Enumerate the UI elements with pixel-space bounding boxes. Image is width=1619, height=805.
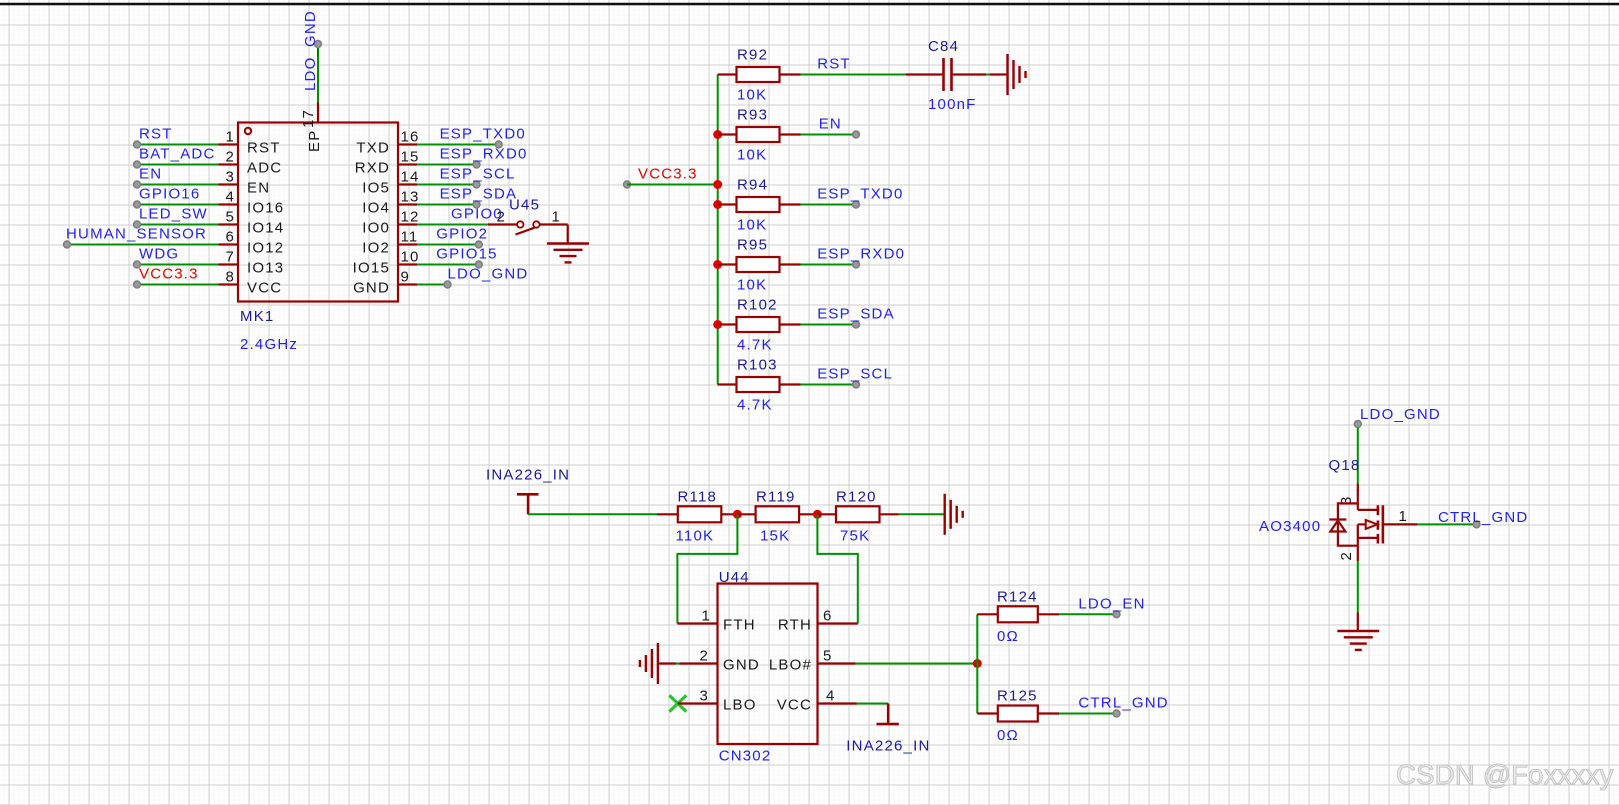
MK1 pin 10 stub [398, 263, 417, 265]
MK1 pin 4 name IO16 [247, 200, 284, 217]
MK1 pin 14 name IO5 [362, 180, 390, 197]
junction bus-R94 [713, 200, 722, 209]
svg-text:IO2: IO2 [362, 240, 390, 257]
MK1 pin 7 number [225, 249, 235, 266]
svg-text:AO3400: AO3400 [1259, 518, 1321, 535]
svg-text:LDO_GND: LDO_GND [302, 10, 319, 91]
sheet top border [0, 3, 1619, 5]
net label ESP_TXD0 (R94 row) [817, 186, 903, 203]
resistor R94 right lead [780, 203, 801, 205]
resistor R118 value [676, 528, 715, 545]
svg-text:Q18: Q18 [1329, 457, 1361, 474]
wire R125 to CTRL_GND [1059, 713, 1116, 715]
node EN endpoint [134, 181, 141, 188]
MK1 pin 12 stub [398, 223, 417, 225]
resistor R94 left lead [718, 203, 737, 205]
svg-text:2.4GHz: 2.4GHz [240, 336, 298, 353]
svg-text:VCC3.3: VCC3.3 [638, 166, 698, 183]
U44 pin 2 stub [680, 662, 718, 664]
Q18 body arrow head [1366, 520, 1378, 529]
resistor R103 left lead [718, 383, 737, 385]
net label LDO_GND [448, 266, 529, 283]
svg-text:R103: R103 [737, 357, 778, 374]
op-amp U44 body (CN302) [718, 584, 818, 745]
svg-text:1: 1 [225, 129, 235, 146]
svg-text:2: 2 [699, 648, 709, 665]
resistor R92 reference [737, 47, 768, 64]
wire net GPIO16 to MK1 pin 4 [137, 204, 219, 206]
svg-text:VCC: VCC [777, 697, 812, 714]
net label ESP_SDA [440, 186, 518, 203]
net label LDO_GND (Q18) [1360, 406, 1441, 423]
ground (R120) [945, 494, 963, 535]
resistor R102 reference [737, 297, 778, 314]
node ESP_TXD0 endpoint [853, 201, 860, 208]
svg-text:GPIO0: GPIO0 [451, 206, 503, 223]
watermark CSDN @Foxxxxy [1396, 759, 1614, 790]
resistor R118 reference [678, 488, 718, 505]
node GPIO2 endpoint [475, 241, 482, 248]
U44 pin 4 number [826, 688, 836, 705]
wire net RST to MK1 pin 1 [137, 144, 219, 146]
svg-text:10K: 10K [737, 217, 767, 234]
resistor R124 reference [997, 588, 1038, 605]
svg-text:IO12: IO12 [247, 240, 284, 257]
resistor R93 value [737, 147, 767, 164]
resistor R103 reference [737, 357, 778, 374]
wire net VCC3.3 to MK1 pin 8 [137, 284, 219, 286]
MK1 pin 13 name IO4 [362, 200, 390, 217]
U44 reference label [719, 569, 750, 586]
svg-text:110K: 110K [676, 528, 715, 545]
svg-text:5: 5 [225, 209, 235, 226]
net label WDG [139, 246, 179, 263]
resistor R92 value [737, 87, 767, 104]
U45 reference label [509, 197, 540, 214]
net label LDO_GND (vertical) [302, 10, 319, 91]
MK1 pin 17 (EP) stub [317, 103, 319, 123]
MK1 pin 6 stub [219, 243, 239, 245]
MK1 pin 7 stub [219, 263, 239, 265]
junction bus-VCC3.3 [713, 180, 722, 189]
U44 pin 2 name GND [723, 657, 760, 674]
svg-text:12: 12 [401, 209, 420, 226]
U44 pin 6 stub [818, 622, 858, 624]
svg-text:R92: R92 [737, 47, 768, 64]
svg-text:MK1: MK1 [240, 308, 274, 325]
wire MK1 pin 13 to ESP_SDA [417, 204, 476, 206]
resistor R94 value [737, 217, 767, 234]
svg-text:LDO_GND: LDO_GND [1360, 406, 1441, 423]
Q18 body diode cathode bar [1329, 518, 1346, 520]
svg-text:6: 6 [823, 608, 833, 625]
resistor R120 value [840, 528, 870, 545]
U45 lever [516, 228, 535, 235]
resistor R120 body [836, 506, 880, 522]
MK1 pin 5 name IO14 [247, 220, 284, 237]
svg-text:14: 14 [401, 169, 420, 186]
svg-text:R118: R118 [678, 488, 718, 505]
Q18 gate pin (1) [1384, 523, 1417, 525]
wire C84 to ground [986, 74, 990, 76]
MK1 pin 13 stub [398, 203, 417, 205]
resistor R120 left lead [817, 513, 836, 515]
svg-text:CSDN @Foxxxxy: CSDN @Foxxxxy [1396, 759, 1614, 790]
wire R119-junction to U44 pin 6 [817, 514, 857, 623]
svg-text:10K: 10K [737, 277, 767, 294]
svg-text:15: 15 [401, 149, 420, 166]
MK1 pin 15 stub [398, 163, 417, 165]
svg-text:ESP_TXD0: ESP_TXD0 [440, 126, 526, 143]
svg-text:VCC3.3: VCC3.3 [139, 266, 199, 283]
net label ESP_TXD0 [440, 126, 526, 143]
svg-text:R119: R119 [756, 488, 796, 505]
capacitor C84 value [928, 96, 977, 113]
U45 contact circle left [517, 221, 523, 227]
svg-text:CTRL_GND: CTRL_GND [1438, 509, 1528, 526]
svg-text:ESP_TXD0: ESP_TXD0 [817, 186, 903, 203]
Q18 body arrow line [1358, 523, 1365, 525]
Q18 source vertical [1357, 524, 1359, 545]
resistor R92 left lead [718, 73, 737, 75]
resistor R92 right lead [780, 73, 801, 75]
MK1 pin 8 name VCC [247, 280, 282, 297]
svg-text:8: 8 [225, 269, 235, 286]
resistor R95 value [737, 277, 767, 294]
U44 pin 1 stub [677, 622, 717, 624]
wire LDO_GND to Q18 drain [1357, 428, 1359, 484]
svg-text:10: 10 [401, 249, 420, 266]
wire R93 to EN [801, 134, 857, 136]
svg-text:11: 11 [401, 229, 419, 246]
MK1 pin 1 number [225, 129, 235, 146]
junction bus-R95 [713, 260, 722, 269]
U44 pin 3 name LBO [723, 697, 757, 714]
op-amp U-MK1 body (2.4GHz module MK1) [238, 123, 398, 302]
node LDO_EN endpoint [1113, 611, 1120, 618]
net label CTRL_GND (Q18) [1438, 509, 1528, 526]
svg-text:EP: EP [306, 130, 323, 152]
U44 value label CN302 [719, 748, 772, 765]
svg-text:IO13: IO13 [247, 260, 284, 277]
resistor R119 reference [756, 488, 796, 505]
MK1 pin 10 number [401, 249, 420, 266]
node BAT_ADC endpoint [134, 161, 141, 168]
wire MK1 pin 15 to ESP_RXD0 [417, 164, 476, 166]
MK1 pin 8 number [225, 269, 235, 286]
MK1 pin 2 number [225, 149, 235, 166]
MK1 pin 11 number [401, 229, 419, 246]
MK1 pin 15 name RXD [355, 160, 390, 177]
net label HUMAN_SENSOR [66, 226, 207, 243]
wire VCC3.3 to bus [627, 184, 718, 186]
svg-text:R93: R93 [737, 107, 768, 124]
net label ESP_RXD0 [440, 146, 528, 163]
U44 pin 1 name FTH [723, 617, 756, 634]
svg-text:GPIO2: GPIO2 [436, 226, 488, 243]
MK1 value label 2.4GHz [240, 336, 298, 353]
MK1 pin 3 stub [219, 183, 239, 185]
svg-text:TXD: TXD [356, 140, 390, 157]
U44 pin 4 stub [818, 702, 857, 704]
MK1 pin 1 name RST [247, 140, 281, 157]
resistor R94 reference [737, 177, 768, 194]
svg-text:ESP_RXD0: ESP_RXD0 [817, 246, 905, 263]
wire ground to U44 pin 2 [676, 663, 680, 665]
net label EN [139, 166, 162, 183]
svg-text:R102: R102 [737, 297, 778, 314]
resistor R125 reference [997, 688, 1038, 705]
net label BAT_ADC [139, 146, 215, 163]
capacitor C84 left lead [906, 73, 942, 75]
svg-text:3: 3 [225, 169, 235, 186]
capacitor C84 reference [928, 38, 959, 55]
svg-text:IO16: IO16 [247, 200, 284, 217]
svg-text:EN: EN [247, 180, 270, 197]
net label ESP_RXD0 (R95 row) [817, 246, 905, 263]
node ESP_RXD0 endpoint [473, 161, 480, 168]
MK1 pin 8 stub [219, 283, 239, 285]
resistor R120 reference [836, 488, 877, 505]
resistor R125 left lead [977, 712, 998, 714]
wire net HUMAN_SENSOR to MK1 pin 6 [67, 244, 219, 246]
resistor R93 right lead [780, 133, 801, 135]
svg-text:17: 17 [300, 109, 317, 128]
wire RST to C84 [801, 74, 907, 76]
ground (U45) [547, 244, 589, 263]
resistor R125 right lead [1038, 712, 1060, 714]
node ESP_TXD0 endpoint [495, 141, 502, 148]
svg-text:16: 16 [401, 129, 420, 146]
Q18 channel bar top [1377, 505, 1380, 515]
ground (Q18) [1337, 631, 1379, 650]
U44 pin 3 number [699, 688, 709, 705]
resistor R124 value [997, 628, 1019, 645]
MK1 pin 17 name EP [306, 130, 323, 152]
MK1 pin 9 number [401, 269, 411, 286]
node HUMAN_SENSOR endpoint [64, 241, 71, 248]
MK1 pin 1 stub [219, 143, 239, 145]
wire net LED_SW to MK1 pin 5 [137, 224, 219, 226]
svg-text:RST: RST [817, 56, 851, 73]
svg-text:0Ω: 0Ω [997, 727, 1019, 744]
svg-text:13: 13 [401, 189, 420, 206]
svg-text:4: 4 [826, 688, 836, 705]
MK1 pin-1 indicator [245, 128, 251, 134]
svg-text:100nF: 100nF [928, 96, 977, 113]
wire R95 to ESP_RXD0 [801, 264, 857, 266]
svg-text:EN: EN [819, 116, 842, 133]
net label INA226_IN (bottom) [846, 737, 930, 754]
net label LED_SW [139, 206, 208, 223]
Q18 drain-channel link [1358, 509, 1378, 511]
MK1 pin 9 stub [398, 283, 417, 285]
svg-text:BAT_ADC: BAT_ADC [139, 146, 215, 163]
net label VCC3.3 [139, 266, 199, 283]
wire junction to R124/R125 (vertical) [976, 614, 978, 713]
svg-text:2: 2 [1338, 551, 1355, 561]
Q18 source pin (2) [1357, 546, 1359, 561]
U45 pin 2 lead [488, 223, 517, 225]
svg-text:6: 6 [225, 229, 235, 246]
wire GPIO0 to U45 [417, 224, 488, 226]
svg-text:EN: EN [139, 166, 162, 183]
svg-text:WDG: WDG [139, 246, 179, 263]
resistor R93 left lead [718, 133, 737, 135]
no-connect X (U44 pin 3) [669, 695, 686, 711]
svg-text:GPIO16: GPIO16 [139, 186, 200, 203]
wire Q18 source to ground [1357, 561, 1359, 613]
net label ESP_SCL (R103 row) [817, 366, 893, 383]
wire R102 to ESP_SDA [801, 324, 857, 326]
resistor R125 value [997, 727, 1019, 744]
VCC3.3 bus wire (vertical) [717, 75, 719, 385]
svg-text:10K: 10K [737, 87, 767, 104]
MK1 pin 6 number [225, 229, 235, 246]
resistor R102 value [737, 337, 773, 354]
junction R118-R119 [733, 510, 742, 519]
net label GPIO2 [436, 226, 488, 243]
U44 pin 6 name RTH [778, 617, 812, 634]
svg-text:ESP_SDA: ESP_SDA [817, 306, 895, 323]
node GPIO16 endpoint [134, 201, 141, 208]
U44 pin 5 number [823, 648, 833, 665]
resistor R124 left lead [977, 613, 998, 615]
svg-text:0Ω: 0Ω [997, 628, 1019, 645]
resistor R94 body [737, 197, 780, 212]
svg-text:IO0: IO0 [362, 220, 390, 237]
svg-text:IO15: IO15 [353, 260, 390, 277]
svg-text:RST: RST [247, 140, 281, 157]
node CTRL_GND endpoint (Q18) [1473, 521, 1480, 528]
net label RST [139, 126, 173, 143]
MK1 pin 11 stub [398, 243, 417, 245]
U44 pin 6 number [823, 608, 833, 625]
wire MK1 pin 11 to GPIO2 [417, 244, 479, 246]
svg-text:RST: RST [139, 126, 173, 143]
power label VCC3.3 [638, 166, 698, 183]
Q18 channel bar bottom [1377, 534, 1380, 544]
MK1 pin 4 number [225, 189, 235, 206]
resistor R124 body [998, 606, 1038, 622]
wire net EN to MK1 pin 3 [137, 184, 219, 186]
Q18 pin 3 number [1338, 495, 1355, 505]
resistor R118 left lead [657, 513, 678, 515]
MK1 pin 3 name EN [247, 180, 270, 197]
svg-text:4.7K: 4.7K [737, 397, 773, 414]
svg-text:9: 9 [401, 269, 411, 286]
port INA226_IN (top) pin [527, 494, 530, 514]
resistor R119 body [756, 506, 800, 522]
net label INA226_IN (top) [486, 466, 570, 483]
svg-text:1: 1 [552, 209, 562, 226]
MK1 pin 16 stub [398, 143, 417, 145]
wire MK1 pin 10 to GPIO15 [417, 264, 479, 266]
svg-text:RTH: RTH [778, 617, 812, 634]
port INA226_IN (bottom) pin [887, 704, 890, 725]
Q18 reference label [1329, 457, 1361, 474]
U45 contact circle right [533, 221, 539, 227]
svg-text:LDO_EN: LDO_EN [1078, 595, 1145, 612]
U45 pin 1 number [552, 209, 562, 226]
wire U45 pin1 down to ground [567, 225, 569, 244]
svg-text:IO4: IO4 [362, 200, 390, 217]
svg-text:LBO: LBO [723, 697, 757, 714]
port INA226_IN (top) bar [517, 493, 539, 496]
resistor R119 left lead [737, 513, 755, 515]
svg-text:5: 5 [823, 648, 833, 665]
resistor R93 body [737, 127, 780, 142]
net label EN (R93 row) [819, 116, 842, 133]
node VCC3.3 endpoint [624, 181, 631, 188]
MK1 pin 13 number [401, 189, 420, 206]
resistor R125 body [998, 706, 1038, 722]
node ESP_SCL endpoint [853, 381, 860, 388]
resistor R103 body [737, 377, 780, 392]
svg-text:ESP_SDA: ESP_SDA [440, 186, 518, 203]
MK1 pin 16 number [401, 129, 420, 146]
resistor R95 body [737, 257, 780, 272]
node CTRL_GND endpoint [1113, 710, 1120, 717]
wire MK1 pin 9 to LDO_GND [417, 284, 447, 286]
node ESP_SDA endpoint [473, 201, 480, 208]
resistor R95 right lead [780, 263, 801, 265]
node LDO_GND endpoint (top) [315, 41, 322, 48]
MK1 pin 5 stub [219, 223, 239, 225]
node GPIO15 endpoint [475, 261, 482, 268]
junction pin5-R124/R125 [973, 659, 982, 668]
net label GPIO15 [436, 246, 497, 263]
wire EP to LDO_GND [317, 44, 319, 103]
resistor R102 left lead [718, 323, 737, 325]
net label ESP_SDA (R102 row) [817, 306, 895, 323]
wire net BAT_ADC to MK1 pin 2 [137, 164, 219, 166]
ground lead (Q18) [1357, 613, 1359, 632]
MK1 pin 11 name IO2 [362, 240, 390, 257]
svg-text:R94: R94 [737, 177, 768, 194]
MK1 pin 9 name GND [353, 280, 390, 297]
wire INA226_IN to R118 [528, 513, 657, 515]
ground lead (U44 pin 2) [658, 662, 676, 664]
ground (U44 pin 2) [640, 643, 658, 684]
wire U44 pin 4 to port [857, 703, 888, 705]
resistor R95 reference [737, 237, 768, 254]
U44 pin 5 name LBO# [769, 657, 812, 674]
wire Q18 gate to CTRL_GND [1417, 523, 1476, 525]
U44 pin 5 stub [818, 662, 856, 664]
U44 pin 2 number [699, 648, 709, 665]
MK1 pin 15 number [401, 149, 420, 166]
capacitor C84 right lead [953, 73, 986, 75]
wire net WDG to MK1 pin 7 [137, 264, 219, 266]
ground (C84) [1008, 54, 1026, 95]
resistor R119 value [760, 528, 790, 545]
svg-text:4: 4 [225, 189, 235, 206]
MK1 pin 3 number [225, 169, 235, 186]
MK1 pin 12 number [401, 209, 420, 226]
svg-text:LED_SW: LED_SW [139, 206, 208, 223]
svg-text:1: 1 [701, 608, 711, 625]
resistor R119 right lead [799, 513, 817, 515]
resistor R118 body [678, 506, 722, 522]
svg-text:FTH: FTH [723, 617, 756, 634]
node LDO_GND endpoint (Q18) [1354, 421, 1361, 428]
svg-text:ESP_RXD0: ESP_RXD0 [440, 146, 528, 163]
svg-text:2: 2 [225, 149, 235, 166]
MK1 pin 14 number [401, 169, 420, 186]
wire R103 to ESP_SCL [801, 384, 857, 386]
ground lead (C84) [990, 73, 1008, 75]
